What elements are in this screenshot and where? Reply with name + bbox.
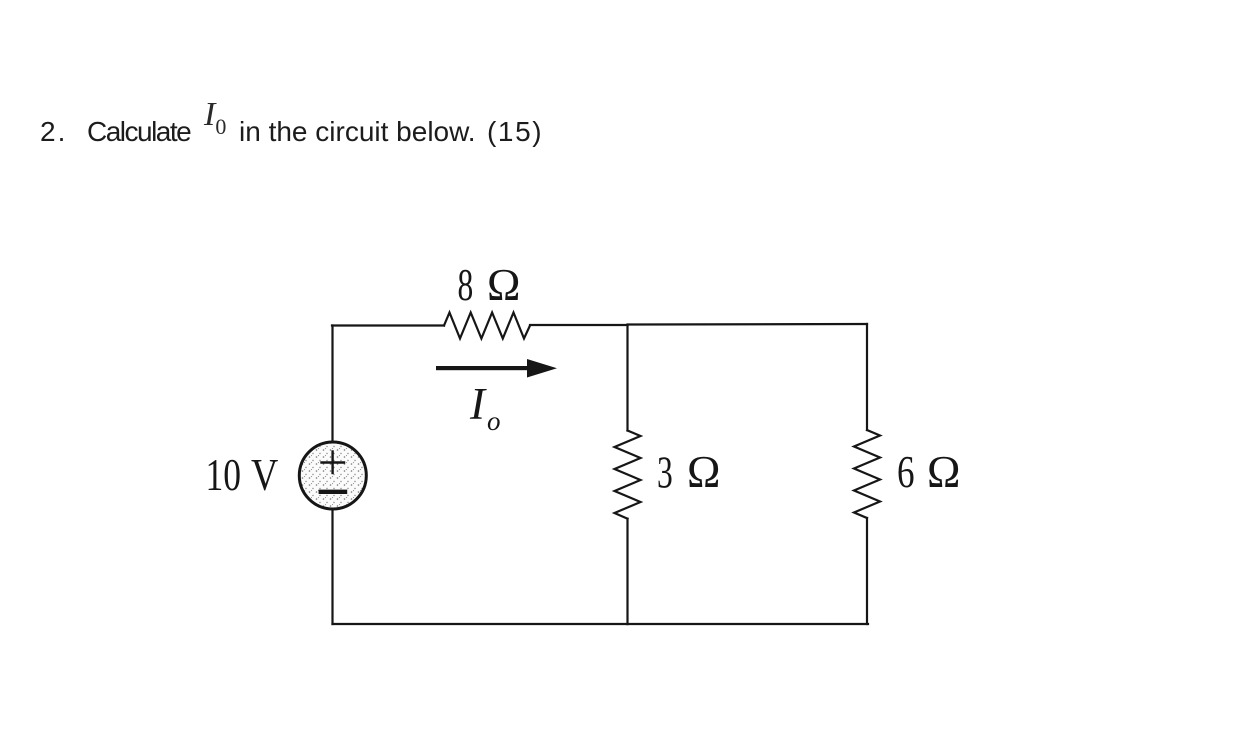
wire: top middle segment to node A — [530, 324, 628, 326]
value label 10 V — [206, 450, 279, 500]
current arrow Io — [436, 359, 557, 378]
svg-text:6: 6 — [897, 447, 915, 497]
resistor R1 8Ω (horizontal zigzag) — [444, 313, 530, 339]
wire: bottom right segment — [628, 623, 869, 625]
wire: top-left horizontal segment — [332, 324, 444, 326]
value label 8 Ω — [458, 260, 521, 310]
wire: middle vertical top — [626, 325, 628, 431]
label Io (current) — [469, 379, 501, 436]
voltage source V1 10V — [299, 442, 366, 509]
svg-text:Ω: Ω — [487, 260, 520, 310]
wire: left vertical bottom — [331, 510, 333, 624]
wire: left vertical top — [331, 326, 333, 442]
value label 6 Ω — [897, 447, 960, 497]
wire: right vertical top — [866, 324, 868, 430]
resistor R3 6Ω (vertical zigzag) — [854, 430, 880, 518]
wire: middle vertical bottom — [626, 519, 628, 624]
svg-text:Ω: Ω — [927, 447, 960, 497]
svg-text:3: 3 — [657, 448, 673, 498]
svg-text:o: o — [487, 406, 501, 436]
wire: right vertical bottom — [866, 518, 868, 624]
svg-text:V: V — [251, 450, 278, 500]
wire: bottom left segment — [333, 623, 628, 625]
value label 3 Ω — [657, 447, 720, 498]
svg-text:I: I — [469, 379, 487, 429]
wire: top right segment — [628, 323, 868, 326]
svg-text:8: 8 — [458, 261, 474, 311]
svg-text:Ω: Ω — [687, 447, 720, 497]
resistor R2 3Ω (vertical zigzag) — [615, 431, 641, 519]
svg-text:10: 10 — [206, 450, 242, 500]
title: problem statement — [40, 116, 67, 148]
label Io (in title, math) — [204, 96, 226, 134]
